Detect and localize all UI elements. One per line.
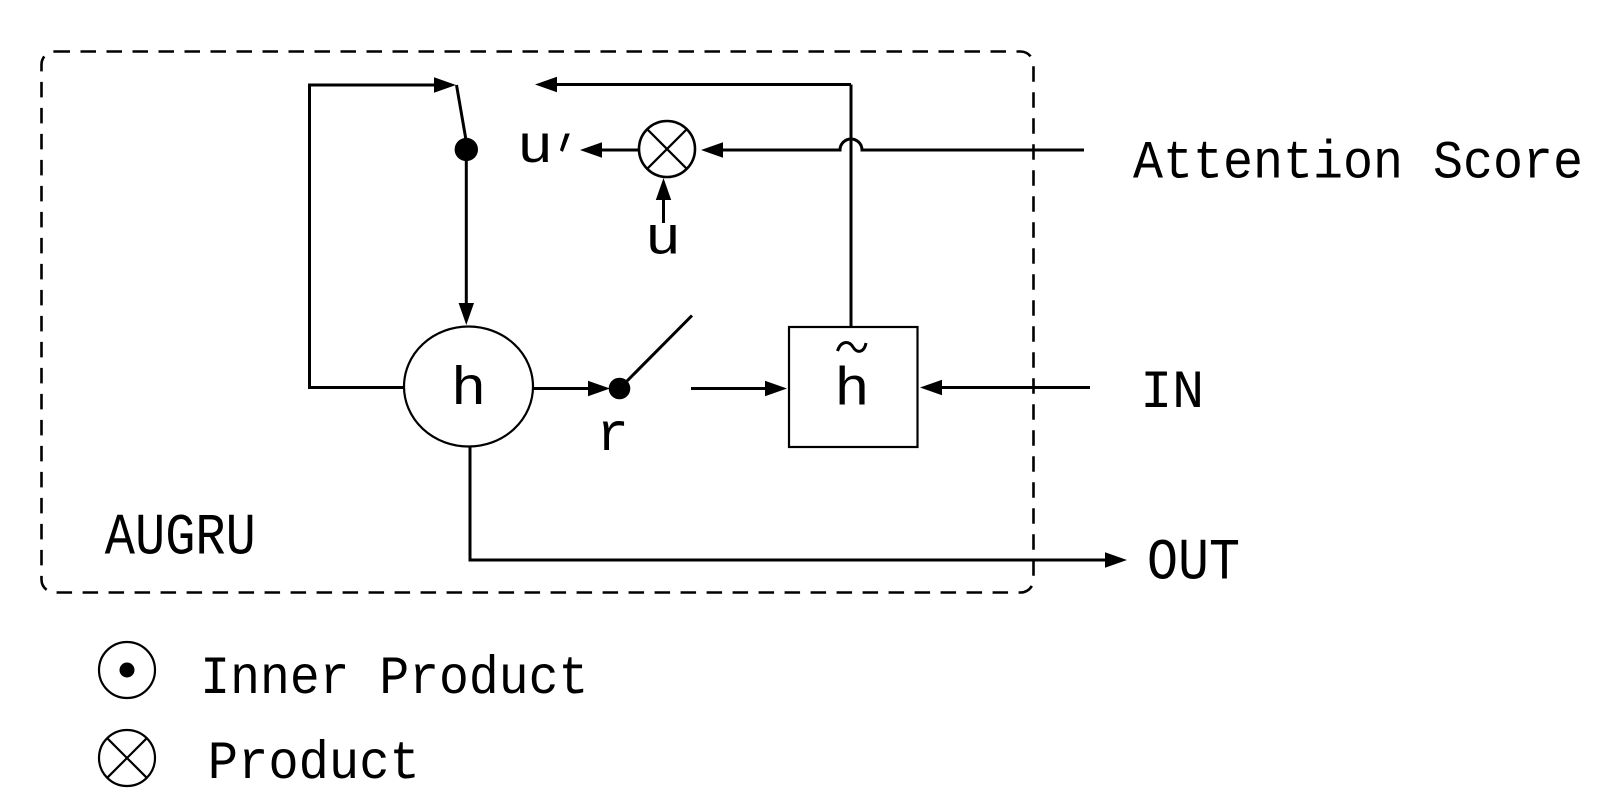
wire: h~ box top up to top line (850, 85, 853, 328)
svg-text:u: u (645, 210, 681, 271)
top horizontal feedback wire from h~ (557, 83, 851, 86)
legend: product symbol (99, 730, 155, 786)
svg-text:AUGRU: AUGRU (105, 507, 256, 572)
wire: feedback loop from h left side up and across (310, 85, 435, 388)
arrow from product circle to u' (602, 149, 638, 152)
svg-text:h: h (834, 361, 870, 422)
IN wire and arrow (942, 386, 1090, 389)
svg-text:u: u (517, 118, 553, 179)
wire: switch down to h (465, 150, 468, 304)
switch blade r (627, 316, 692, 382)
tilde of h~ (838, 343, 867, 352)
svg-text:r: r (597, 406, 629, 467)
arrow from u up into product circle (662, 200, 665, 223)
node dot r switch (609, 378, 631, 400)
arrowhead down into h (459, 303, 474, 325)
svg-text:Attention Score: Attention Score (1133, 134, 1583, 195)
apostrophe of u' (560, 134, 570, 152)
product circle (x) top (639, 121, 695, 177)
node dot u switch (455, 138, 478, 161)
svg-text:Product: Product (208, 734, 420, 791)
svg-text:IN: IN (1140, 363, 1204, 424)
box h~ (candidate state) (789, 327, 918, 447)
switch blade u (top) (457, 85, 467, 140)
arrowhead left (top feedback) (535, 77, 557, 92)
circle h (404, 327, 533, 447)
arrow r to h~ box (691, 387, 765, 390)
svg-text:h: h (451, 360, 487, 421)
OUT wire from h bottom (470, 447, 1105, 561)
svg-text:OUT: OUT (1147, 532, 1240, 597)
arrowhead right at update switch (434, 77, 456, 92)
svg-text:Inner Product: Inner Product (200, 649, 588, 710)
arrow h to r node (533, 387, 588, 390)
AUGRU dashed boundary box (42, 52, 1034, 593)
attention score wire with hop over vertical (723, 139, 1084, 150)
legend: inner product symbol (99, 642, 155, 698)
arrowhead left into product circle (701, 142, 723, 157)
